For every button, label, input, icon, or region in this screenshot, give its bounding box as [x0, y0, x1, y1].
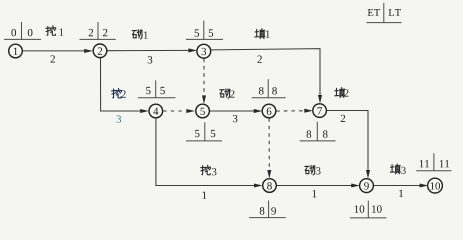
node 6 ET/LT label 8|8 — [252, 79, 286, 98]
node 9 ET/LT label 10|10 — [350, 201, 387, 218]
node 5 ET/LT label 5|5 — [186, 122, 222, 141]
node 8 ET/LT label 8|9 — [249, 201, 286, 218]
duration 1 on 8-9 — [313, 190, 317, 197]
wire activity 2-4 dig2 (down then right) — [101, 58, 149, 113]
duration 2 on 3-7 — [257, 56, 261, 63]
node 10 ET/LT label 11|11 — [416, 153, 451, 171]
node 2 ET/LT label 2|2 — [80, 22, 116, 39]
activity label masonry3 — [305, 165, 321, 174]
node 1 ET/LT label 0|0 — [4, 22, 41, 39]
activity label dig2 (navy) — [112, 88, 126, 98]
node 1 — [9, 44, 23, 58]
legend ET|LT — [367, 3, 402, 23]
wire activity 7-9 fill2 (right then down) — [326, 111, 370, 179]
activity label fill2 — [335, 88, 349, 98]
wire dummy 3-5 (dashed, down) — [202, 59, 206, 105]
wire activity 4-8 dig3 (down then right) — [156, 118, 263, 188]
duration 1 on 9-10 — [399, 190, 403, 197]
node 4 — [149, 104, 163, 118]
node 6 — [262, 104, 276, 118]
node 7 — [313, 104, 327, 118]
node 8 — [263, 179, 277, 193]
duration 3 on 5-6 — [233, 115, 238, 122]
duration 3 on 2-3 — [148, 56, 153, 63]
wire activity 8-9 masonry3 — [276, 183, 359, 187]
activity label dig3 — [201, 165, 217, 175]
node 9 — [360, 179, 374, 193]
node 3 — [197, 44, 211, 58]
wire activity 1-2 dig1 — [22, 49, 93, 53]
activity label masonry1 — [132, 30, 148, 39]
activity label fill1 — [255, 29, 270, 39]
wire activity 2-3 masonry1 — [107, 48, 197, 52]
wire dummy 6-8 (dashed, down) — [267, 118, 271, 178]
wire activity 5-6 masonry2 — [209, 109, 262, 113]
wire dummy 4-5 (dashed) — [163, 109, 195, 113]
wire activity 3-7 fill1 (right then down) — [211, 49, 322, 104]
wire dummy 6-7 (dashed) — [276, 109, 313, 113]
node 3 ET/LT label 5|5 — [186, 21, 223, 40]
node 4 ET/LT label 5|5 — [138, 80, 176, 97]
node 5 — [196, 104, 210, 118]
wire activity 9-10 fill3 — [373, 183, 428, 187]
activity label fill3 — [390, 164, 405, 174]
duration 2 on 7-9 — [341, 115, 345, 122]
duration 1 on 4-8 — [203, 192, 207, 199]
activity label masonry2 — [220, 89, 235, 98]
node 10 — [428, 178, 443, 193]
node 7 ET/LT label 8|8 — [300, 122, 336, 141]
duration 2 on 1-2 — [51, 55, 55, 62]
activity label dig1 — [46, 26, 64, 36]
node 2 — [93, 44, 107, 58]
duration 3 on 2-4 (teal) — [117, 115, 122, 122]
